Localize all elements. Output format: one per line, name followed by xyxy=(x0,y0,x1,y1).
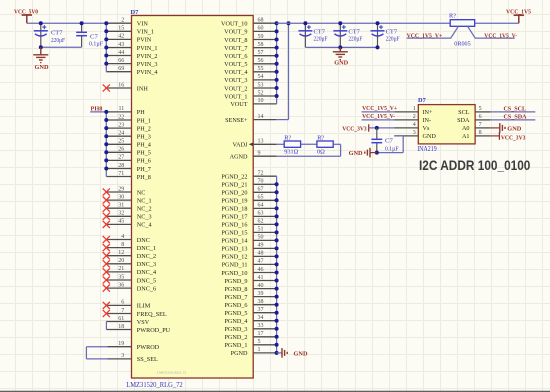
svg-text:PVIN_3: PVIN_3 xyxy=(137,61,158,68)
capacitor CT7 220uF (output 2) xyxy=(333,23,347,47)
svg-text:D7: D7 xyxy=(131,9,140,16)
svg-text:PGND_13: PGND_13 xyxy=(221,246,247,253)
svg-text:47: 47 xyxy=(258,259,264,265)
svg-text:13: 13 xyxy=(258,139,264,145)
svg-text:VCC_3V3: VCC_3V3 xyxy=(501,134,526,141)
svg-text:VIN: VIN xyxy=(137,21,149,28)
IC D7 INA219 current monitor body xyxy=(418,105,475,144)
svg-text:A0: A0 xyxy=(462,125,470,132)
pin 39 PGND_7 of U-D7 xyxy=(224,291,276,301)
svg-text:29: 29 xyxy=(118,186,124,192)
pin 6 SDA of INA219 xyxy=(457,114,490,124)
pin 4 Vs of INA219 xyxy=(394,122,430,132)
svg-text:51: 51 xyxy=(258,227,264,233)
pin 35 DNC_5 of U-D7 xyxy=(103,274,156,284)
wire input caps bottom xyxy=(41,46,82,48)
svg-text:931Ω: 931Ω xyxy=(284,148,298,155)
label 931R value xyxy=(284,148,298,155)
pin 14 SENSE+ of U-D7 xyxy=(225,114,277,124)
svg-text:21: 21 xyxy=(118,266,124,272)
svg-text:PGND_9: PGND_9 xyxy=(224,278,247,285)
label CT7 220uF (input) xyxy=(51,30,65,44)
ground GND (input caps) xyxy=(33,47,49,71)
svg-text:VCC_1V5_V+: VCC_1V5_V+ xyxy=(362,105,397,112)
pin 5 SCL of INA219 xyxy=(458,106,490,116)
svg-text:IN-: IN- xyxy=(423,117,432,124)
pin 29 NC of U-D7 xyxy=(103,186,146,196)
svg-text:NC: NC xyxy=(137,189,146,196)
pin 57 VOUT_6 of U-D7 xyxy=(224,50,276,60)
power port VCC_1V5 xyxy=(506,8,531,15)
svg-text:23: 23 xyxy=(118,122,124,128)
junction rail at output cap 2 xyxy=(338,21,342,25)
svg-text:VCC_3V3: VCC_3V3 xyxy=(342,125,367,132)
svg-text:PGND_5: PGND_5 xyxy=(224,310,247,317)
svg-text:PVIN_4: PVIN_4 xyxy=(137,69,158,76)
label C7 0.1uF (INA219) xyxy=(385,137,399,152)
svg-text:4: 4 xyxy=(121,234,124,240)
svg-text:PGND_4: PGND_4 xyxy=(224,318,247,325)
svg-text:VOUT_9: VOUT_9 xyxy=(224,29,247,36)
pin 20 DNC_3 of U-D7 xyxy=(103,258,156,268)
label C7 0.1uF (input) xyxy=(89,33,103,47)
pin 58 VOUT_7 of U-D7 xyxy=(224,42,276,52)
svg-text:GND: GND xyxy=(423,133,437,140)
designator D7 (INA219) xyxy=(418,97,427,104)
svg-text:6: 6 xyxy=(479,114,482,120)
wire shunt sense+ tap xyxy=(407,26,459,38)
svg-text:PGND_3: PGND_3 xyxy=(224,326,247,333)
label R? (shunt) xyxy=(449,13,456,20)
svg-text:PH_5: PH_5 xyxy=(137,150,151,157)
svg-text:43: 43 xyxy=(118,42,124,48)
svg-text:GND: GND xyxy=(349,150,363,157)
svg-text:DNC: DNC xyxy=(137,237,150,244)
svg-text:63: 63 xyxy=(258,211,264,217)
svg-text:0R005: 0R005 xyxy=(454,41,470,48)
junction SENSE+ at rail xyxy=(287,21,291,25)
pin 71 PH_8 of U-D7 xyxy=(106,171,151,181)
capacitor CT7 220uF (output 1) xyxy=(298,23,312,47)
svg-text:VOUT_1: VOUT_1 xyxy=(224,93,247,100)
svg-text:VOUT_2: VOUT_2 xyxy=(224,85,247,92)
svg-text:71: 71 xyxy=(118,171,124,177)
svg-text:55: 55 xyxy=(258,66,264,72)
svg-text:PVIN_2: PVIN_2 xyxy=(137,53,158,60)
svg-text:64: 64 xyxy=(258,203,264,209)
svg-text:15: 15 xyxy=(118,26,124,32)
svg-text:5: 5 xyxy=(258,339,261,345)
ground GND (output caps) xyxy=(333,47,349,66)
pin 46 PGND_10 of U-D7 xyxy=(221,267,276,277)
svg-text:INA219: INA219 xyxy=(417,146,437,153)
wire VOUT rail xyxy=(277,22,451,24)
svg-text:SDA: SDA xyxy=(457,117,470,124)
svg-text:58: 58 xyxy=(258,42,264,48)
bus PH pins vertical xyxy=(105,112,107,177)
wire VADJ to R931 xyxy=(277,143,285,145)
svg-text:44: 44 xyxy=(118,50,124,56)
svg-text:VADJ: VADJ xyxy=(232,142,248,149)
junction C7 ground node xyxy=(375,151,379,155)
resistor R? 931R xyxy=(284,141,300,147)
svg-text:50: 50 xyxy=(258,235,264,241)
capacitor CT7 220uF (input) xyxy=(34,23,48,47)
svg-text:CS_SCL: CS_SCL xyxy=(504,105,527,112)
label CT7 220uF (output 3) xyxy=(386,29,400,43)
svg-text:27: 27 xyxy=(118,155,124,161)
svg-text:VOUT_6: VOUT_6 xyxy=(224,53,247,60)
wire output caps bottom xyxy=(305,46,377,48)
svg-text:67: 67 xyxy=(258,187,264,193)
svg-text:10: 10 xyxy=(258,98,264,104)
pin 4 DNC of U-D7 xyxy=(103,234,150,244)
wire VCC_5V0 rail to pin 2 xyxy=(27,22,107,24)
pin 23 PH_2 of U-D7 xyxy=(106,122,151,132)
svg-text:DNC_4: DNC_4 xyxy=(137,269,156,276)
svg-text:59: 59 xyxy=(258,34,264,40)
svg-text:1: 1 xyxy=(413,106,416,112)
designator D7 (LMZ31520) xyxy=(131,9,140,16)
svg-text:C7: C7 xyxy=(385,137,393,144)
svg-text:DNC_5: DNC_5 xyxy=(137,277,156,284)
svg-text:PGND: PGND xyxy=(231,350,248,357)
svg-text:VCC_1V5: VCC_1V5 xyxy=(506,8,531,15)
capacitor C7 0.1uF (INA219) xyxy=(371,128,382,153)
svg-text:3: 3 xyxy=(413,130,416,136)
pin 3 SS_SEL of U-D7 xyxy=(108,353,158,363)
svg-text:PGND_8: PGND_8 xyxy=(224,286,247,293)
svg-text:PVIN_1: PVIN_1 xyxy=(137,45,158,52)
svg-text:PGND_17: PGND_17 xyxy=(221,214,247,221)
svg-text:25: 25 xyxy=(118,139,124,145)
wire R931 to R0 xyxy=(301,143,317,145)
pin 26 PH_5 of U-D7 xyxy=(106,147,151,157)
svg-text:0.1µF: 0.1µF xyxy=(385,145,399,152)
svg-text:PWROD_PU: PWROD_PU xyxy=(137,327,171,334)
pin 44 PVIN_2 of U-D7 xyxy=(106,50,157,60)
value LMZ31520_RLG_72 xyxy=(126,382,183,389)
pin 40 PGND_8 of U-D7 xyxy=(224,283,276,293)
wire CS_SDA xyxy=(491,119,536,121)
svg-text:PGND_15: PGND_15 xyxy=(221,230,247,237)
svg-text:220µF: 220µF xyxy=(314,36,328,43)
pin 55 VOUT_4 of U-D7 xyxy=(224,66,276,76)
svg-text:PGND_6: PGND_6 xyxy=(224,302,247,309)
pin 2 IN- of INA219 xyxy=(394,114,431,124)
value INA219 xyxy=(417,146,437,153)
pin 11 PH of U-D7 xyxy=(106,106,145,116)
svg-text:PWROD: PWROD xyxy=(137,344,160,351)
svg-text:36: 36 xyxy=(118,282,124,288)
pin 41 PGND_9 of U-D7 xyxy=(224,275,276,285)
pin 12 DNC_2 of U-D7 xyxy=(103,250,156,260)
svg-text:VOUT: VOUT xyxy=(230,101,247,108)
pin 1 IN+ of INA219 xyxy=(394,106,433,116)
svg-text:32: 32 xyxy=(118,211,124,217)
net label VCC_1V5_V- (INA219) and wire xyxy=(362,113,396,120)
pin 51 PGND_15 of U-D7 xyxy=(221,227,276,237)
junctions VOUT bus xyxy=(275,21,279,98)
svg-text:56: 56 xyxy=(258,58,264,64)
svg-text:28: 28 xyxy=(118,163,124,169)
wire CS_SCL xyxy=(491,111,536,113)
svg-text:45: 45 xyxy=(118,219,124,225)
svg-text:PGND_2: PGND_2 xyxy=(224,334,247,341)
pin 32 NC_3 of U-D7 xyxy=(103,211,152,221)
svg-text:R?: R? xyxy=(449,13,456,20)
pin 3 GND of INA219 xyxy=(394,130,436,140)
svg-text:61: 61 xyxy=(118,316,124,322)
pin 24 PH_3 of U-D7 xyxy=(106,131,151,141)
wire R0 to AGND return xyxy=(277,144,341,156)
pin 54 VOUT_3 of U-D7 xyxy=(224,74,276,84)
svg-text:8: 8 xyxy=(121,242,124,248)
svg-text:19: 19 xyxy=(118,341,124,347)
pin 8 A1 of INA219 xyxy=(462,130,491,140)
junctions PGND bus xyxy=(275,182,279,355)
IC D7 LMZ31520 power module body xyxy=(132,16,254,379)
svg-text:52: 52 xyxy=(258,90,264,96)
svg-text:PH_6: PH_6 xyxy=(137,158,151,165)
power port VCC_3V3 (INA219 A1) xyxy=(491,132,526,141)
pin 6 ILIM of U-D7 xyxy=(103,300,151,310)
svg-text:24: 24 xyxy=(118,131,124,137)
svg-text:FREQ_SEL: FREQ_SEL xyxy=(137,311,167,318)
svg-text:DNC_3: DNC_3 xyxy=(137,261,156,268)
pin 18 PWROD_PU of U-D7 xyxy=(106,324,170,334)
svg-text:GND: GND xyxy=(507,125,521,132)
pin 49 PGND_13 of U-D7 xyxy=(221,243,276,253)
pin 65 PGND_19 of U-D7 xyxy=(221,195,276,205)
pin 7 FREQ_SEL of U-D7 xyxy=(103,308,167,318)
svg-text:65: 65 xyxy=(258,195,264,201)
svg-text:ILIM: ILIM xyxy=(137,303,151,310)
svg-text:16: 16 xyxy=(118,82,124,88)
svg-text:CS_SDA: CS_SDA xyxy=(504,113,527,120)
svg-text:2: 2 xyxy=(121,18,124,24)
svg-text:NC_3: NC_3 xyxy=(137,214,152,221)
pin 48 PGND_12 of U-D7 xyxy=(221,251,276,261)
junction Vs wire at C7 xyxy=(375,126,379,130)
svg-text:SENSE+: SENSE+ xyxy=(225,117,248,124)
pin 16 INH of U-D7 xyxy=(103,82,149,92)
svg-text:VCC_1V5_V-: VCC_1V5_V- xyxy=(484,32,517,39)
ground GND (INA219 A0) xyxy=(491,123,522,133)
svg-text:7: 7 xyxy=(121,308,124,314)
svg-text:PGND_22: PGND_22 xyxy=(221,174,247,181)
pin 13 VADJ of U-D7 xyxy=(232,139,276,149)
pin 69 PVIN_4 of U-D7 xyxy=(106,66,157,76)
svg-text:PH: PH xyxy=(137,109,145,116)
svg-text:220µF: 220µF xyxy=(348,36,362,43)
pin 61 VSV of U-D7 xyxy=(106,316,149,326)
svg-text:9: 9 xyxy=(258,151,261,157)
svg-text:Vs: Vs xyxy=(423,125,430,132)
label CT7 220uF (output 1) xyxy=(314,29,328,43)
pin 53 VOUT_2 of U-D7 xyxy=(224,82,276,92)
pin 68 VOUT_10 of U-D7 xyxy=(221,18,277,28)
wire PGND to ground xyxy=(277,352,282,354)
svg-text:68: 68 xyxy=(258,18,264,24)
svg-text:PVIN: PVIN xyxy=(137,37,152,44)
junction output caps bottom xyxy=(338,45,342,49)
junction input rail at CT7 xyxy=(39,21,43,25)
pin 37 PGND_5 of U-D7 xyxy=(224,307,276,317)
net label CS_SCL xyxy=(504,105,527,112)
resistor R? 0R005 shunt xyxy=(450,20,475,27)
svg-text:PGND_18: PGND_18 xyxy=(221,206,247,213)
pin 70 PGND_21 of U-D7 xyxy=(221,179,276,189)
net label CS_SDA xyxy=(504,113,527,120)
svg-text:220µF: 220µF xyxy=(51,37,65,44)
svg-text:69: 69 xyxy=(118,66,124,72)
svg-text:30: 30 xyxy=(118,194,124,200)
junction rail at output cap 3 xyxy=(376,21,380,25)
svg-text:34: 34 xyxy=(258,315,264,321)
pin 2 VIN of U-D7 xyxy=(106,18,148,28)
svg-text:C7: C7 xyxy=(90,33,98,40)
svg-text:18: 18 xyxy=(118,324,124,330)
pin 25 PH_4 of U-D7 xyxy=(106,139,151,149)
ground GND (INA219 C7) xyxy=(349,148,377,158)
pin 22 PH_1 of U-D7 xyxy=(106,114,151,124)
svg-text:5: 5 xyxy=(479,106,482,112)
label R? (931R) xyxy=(284,134,291,141)
svg-text:42: 42 xyxy=(118,34,124,40)
svg-text:31: 31 xyxy=(118,203,124,209)
ground GND (PGND) xyxy=(282,348,308,358)
svg-text:17: 17 xyxy=(258,331,264,337)
pin 30 NC_1 of U-D7 xyxy=(103,194,152,204)
wire SENSE+ vertical xyxy=(277,23,289,119)
pin 33 PGND_3 of U-D7 xyxy=(224,323,276,333)
pin 38 PGND_6 of U-D7 xyxy=(224,299,276,309)
bus PGND pins vertical xyxy=(276,176,278,353)
pin 21 DNC_4 of U-D7 xyxy=(103,266,156,276)
svg-text:VIN_1: VIN_1 xyxy=(137,29,154,36)
pin 50 PGND_14 of U-D7 xyxy=(221,235,276,245)
svg-text:R?: R? xyxy=(284,134,291,141)
svg-text:NC_4: NC_4 xyxy=(137,222,152,229)
pin 10 VOUT of U-D7 xyxy=(230,98,276,108)
net label VCC_1V5_V+ (shunt) xyxy=(407,32,443,39)
svg-text:PGND_10: PGND_10 xyxy=(221,270,247,277)
svg-text:DNC_1: DNC_1 xyxy=(137,245,156,252)
power port VCC_5V0 xyxy=(14,8,38,23)
svg-text:49: 49 xyxy=(258,243,264,249)
junction input rail at C7 xyxy=(80,21,84,25)
svg-text:72: 72 xyxy=(258,171,264,177)
svg-text:22: 22 xyxy=(118,114,124,120)
junction input caps bottom xyxy=(39,45,43,49)
svg-text:220µF: 220µF xyxy=(386,36,400,43)
svg-text:I2C ADDR 100_0100: I2C ADDR 100_0100 xyxy=(419,158,531,173)
bus VOUT pins vertical xyxy=(276,23,278,104)
svg-text:AGND: AGND xyxy=(230,154,248,161)
svg-text:VSV: VSV xyxy=(137,319,150,326)
pin 59 VOUT_8 of U-D7 xyxy=(224,34,276,44)
pin 31 NC_2 of U-D7 xyxy=(103,203,152,213)
svg-text:DNC_2: DNC_2 xyxy=(137,253,156,260)
junctions VIN bus xyxy=(104,21,108,65)
svg-text:PH_2: PH_2 xyxy=(137,125,151,132)
svg-text:46: 46 xyxy=(258,267,264,273)
pin 19 PWROD of U-D7 xyxy=(108,341,160,351)
pin 9 AGND of U-D7 xyxy=(230,151,277,161)
svg-text:GND: GND xyxy=(35,64,49,71)
svg-text:PH_3: PH_3 xyxy=(137,134,151,141)
svg-text:PH_4: PH_4 xyxy=(137,142,151,149)
pin 17 PGND_2 of U-D7 xyxy=(224,331,276,341)
pin 34 PGND_4 of U-D7 xyxy=(224,315,276,325)
junction output caps bottom at cap3 xyxy=(376,45,380,49)
svg-text:CT7: CT7 xyxy=(51,30,63,37)
pin 47 PGND_11 of U-D7 xyxy=(222,259,277,269)
pin 28 PH_7 of U-D7 xyxy=(106,163,151,173)
svg-text:IN+: IN+ xyxy=(423,109,434,116)
svg-text:PH_7: PH_7 xyxy=(137,166,151,173)
capacitor CT7 220uF (output 3) xyxy=(371,23,385,47)
label R? (0R) xyxy=(317,134,324,141)
wire shunt sense- tap xyxy=(468,26,515,38)
svg-text:53: 53 xyxy=(258,82,264,88)
pin 15 VIN_1 of U-D7 xyxy=(106,26,154,36)
svg-text:7: 7 xyxy=(479,122,482,128)
svg-text:PH_1: PH_1 xyxy=(137,117,151,124)
svg-text:0.1µF: 0.1µF xyxy=(89,40,103,47)
svg-text:VOUT_8: VOUT_8 xyxy=(224,37,247,44)
svg-text:VCC_1V5_V-: VCC_1V5_V- xyxy=(362,113,395,120)
svg-text:GND: GND xyxy=(294,350,308,357)
svg-text:37: 37 xyxy=(258,307,264,313)
svg-text:2: 2 xyxy=(413,114,416,120)
svg-text:35: 35 xyxy=(118,274,124,280)
svg-text:VCC_5V0: VCC_5V0 xyxy=(14,8,38,15)
svg-text:12: 12 xyxy=(118,250,124,256)
pin 52 VOUT_1 of U-D7 xyxy=(224,90,276,100)
pin 36 DNC_6 of U-D7 xyxy=(103,282,156,292)
svg-text:41: 41 xyxy=(258,275,264,281)
svg-text:11: 11 xyxy=(119,106,125,112)
text I2C ADDR 100_0100 xyxy=(419,158,531,173)
svg-text:PGND_21: PGND_21 xyxy=(221,182,247,189)
wire C7 bottom to INA219 GND pin xyxy=(377,136,403,153)
svg-text:26: 26 xyxy=(118,147,124,153)
pin 7 A0 of INA219 xyxy=(462,122,491,132)
pin 72 PGND_22 of U-D7 xyxy=(221,171,276,181)
svg-text:LMZ31520_RLG_72: LMZ31520_RLG_72 xyxy=(157,370,187,374)
wire VSV to PWROD_PU tie xyxy=(105,322,107,330)
label CT7 220uF (output 2) xyxy=(348,29,362,43)
svg-text:3: 3 xyxy=(121,353,124,359)
pin 67 PGND_20 of U-D7 xyxy=(221,187,276,197)
svg-text:4: 4 xyxy=(413,122,416,128)
wire PWROD to SS_SEL tie xyxy=(86,347,107,359)
label 0R005 xyxy=(454,41,470,48)
wire VCC_3V3 to Vs pin xyxy=(369,127,395,129)
svg-text:VOUT_3: VOUT_3 xyxy=(224,77,247,84)
svg-text:GND: GND xyxy=(334,60,348,67)
pin 42 PVIN of U-D7 xyxy=(106,34,151,44)
svg-text:D7: D7 xyxy=(418,97,427,104)
net label VCC_1V5_V- (shunt) xyxy=(484,32,517,39)
pin 1 PGND of U-D7 xyxy=(231,347,277,357)
power port VCC_3V3 (INA219 Vs) xyxy=(342,124,369,132)
svg-text:PGND_11: PGND_11 xyxy=(222,262,248,269)
svg-text:VOUT_5: VOUT_5 xyxy=(224,61,247,68)
svg-text:VOUT_10: VOUT_10 xyxy=(221,21,247,28)
